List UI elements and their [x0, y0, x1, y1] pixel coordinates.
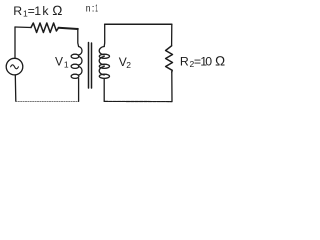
svg-text:k: k	[42, 4, 49, 18]
wire top-left rail right segment	[59, 28, 78, 29]
svg-text:Ω: Ω	[215, 53, 225, 68]
svg-text::: :	[92, 3, 95, 15]
transformer core line right	[91, 43, 93, 88]
transformer secondary bottom stub	[103, 78, 105, 101]
wire right vertical upper	[171, 24, 173, 46]
transformer core line left	[88, 43, 90, 89]
ac source VS circle	[6, 58, 23, 75]
inductor L2 secondary winding curl 1	[99, 54, 109, 58]
inductor L2 secondary winding turn 3	[99, 67, 104, 76]
inductor L2 secondary winding curl 3	[99, 74, 109, 78]
inductor L2 secondary winding turn 1	[99, 47, 104, 56]
svg-text:R: R	[180, 54, 189, 68]
wire left vertical upper	[14, 27, 16, 58]
svg-text:n: n	[86, 3, 91, 15]
svg-text:V: V	[55, 55, 63, 69]
transformer secondary top stub	[103, 24, 106, 46]
inductor L2 secondary winding turn 2	[99, 57, 104, 66]
label R1=1 kOhm	[13, 3, 62, 19]
resistor R2	[166, 46, 173, 72]
inductor L2 secondary winding curl 2	[99, 64, 109, 68]
wire right vertical lower	[171, 72, 173, 102]
svg-text:R: R	[13, 4, 22, 18]
transformer primary bottom stub	[78, 78, 80, 101]
svg-text:Ω: Ω	[52, 3, 62, 18]
inductor L1 primary winding turn 2	[79, 57, 82, 66]
wire bottom-left rail	[16, 101, 79, 103]
svg-text:1: 1	[34, 4, 41, 18]
inductor L1 primary winding turn 1	[79, 47, 82, 56]
inductor L1 primary winding curl 2	[71, 64, 79, 68]
wire top-left rail left segment	[15, 26, 31, 29]
label R2=10 Ohm	[180, 53, 225, 69]
ac source sine symbol	[11, 65, 19, 69]
wire left vertical lower	[14, 75, 17, 101]
resistor R1	[31, 23, 59, 33]
inductor L1 primary winding curl 3	[71, 74, 79, 78]
label V1	[55, 55, 69, 70]
svg-text:1: 1	[64, 59, 69, 69]
svg-text:1: 1	[95, 3, 98, 15]
inductor L1 primary winding turn 3	[79, 67, 82, 76]
transformer primary top stub	[77, 29, 80, 47]
svg-text:0: 0	[205, 54, 212, 68]
svg-text:2: 2	[126, 60, 131, 70]
label n:1	[86, 3, 98, 15]
label V2	[119, 55, 132, 70]
wire top-right rail	[105, 23, 172, 25]
inductor L1 primary winding curl 1	[71, 54, 79, 58]
wire bottom-right rail	[104, 100, 172, 102]
